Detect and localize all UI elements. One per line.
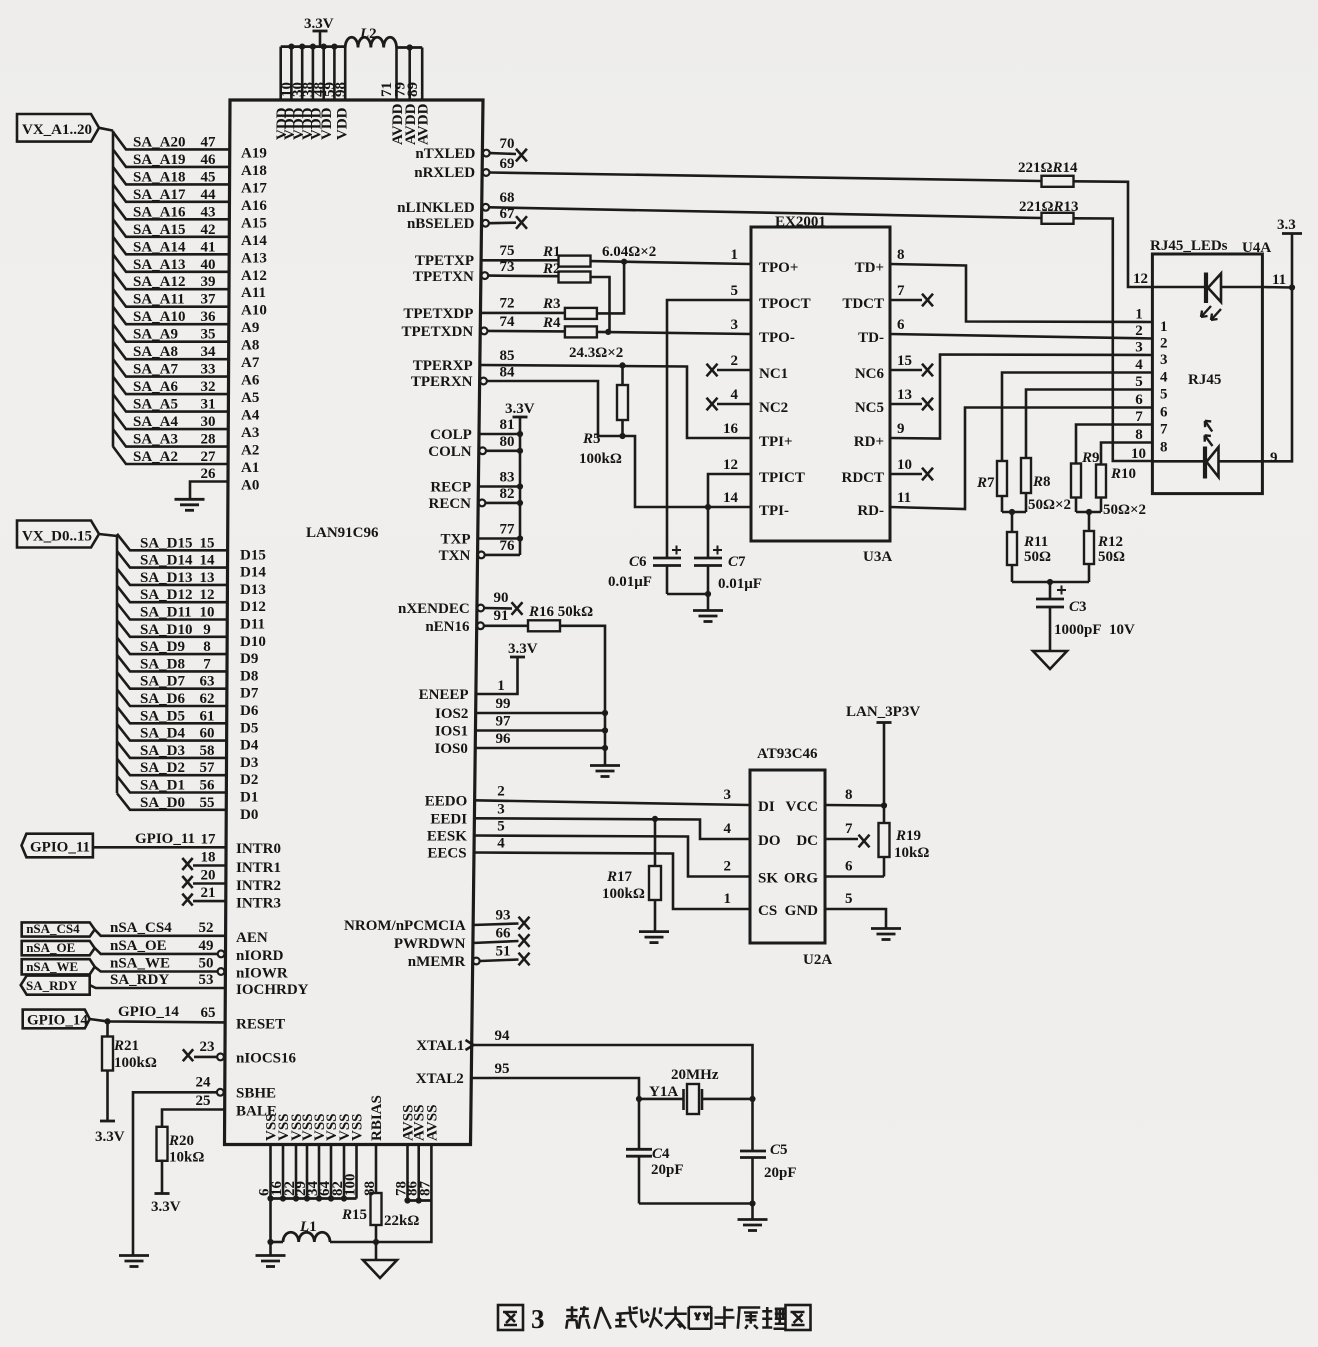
svg-text:6: 6 — [1135, 392, 1143, 408]
svg-text:A17: A17 — [241, 180, 267, 196]
svg-text:D12: D12 — [240, 599, 266, 615]
svg-text:4: 4 — [724, 821, 732, 837]
svg-text:8: 8 — [1135, 427, 1143, 443]
svg-text:R15: R15 — [341, 1207, 367, 1223]
svg-text:46: 46 — [201, 152, 217, 168]
svg-text:77: 77 — [500, 522, 516, 538]
svg-text:NC5: NC5 — [855, 400, 884, 416]
3.3V pullup vertical (COL/REC/TX) — [519, 417, 522, 555]
junction R4/R2 node — [605, 329, 611, 335]
wire TPICT to C7 — [708, 474, 751, 558]
svg-text:COLN: COLN — [428, 444, 472, 460]
svg-text:AEN: AEN — [236, 930, 268, 946]
power symbol 3.3V (R20) — [151, 1194, 181, 1216]
junction XTAL1/C5 — [749, 1096, 755, 1102]
svg-text:82: 82 — [500, 486, 515, 502]
svg-text:1: 1 — [731, 247, 739, 263]
wire AVSS pin 2 — [417, 1145, 420, 1201]
svg-text:RJ45_LEDs: RJ45_LEDs — [1150, 238, 1228, 254]
svg-text:R1: R1 — [542, 244, 561, 260]
svg-text:SA_D1: SA_D1 — [140, 778, 185, 794]
net tag nSA_WE — [22, 959, 95, 975]
svg-text:TPO+: TPO+ — [759, 260, 798, 276]
svg-text:A12: A12 — [241, 268, 267, 284]
no-connect X on nTXLED — [516, 149, 527, 162]
svg-text:nSA_WE: nSA_WE — [26, 959, 78, 974]
wire TPETXN to R2 (pin 73) — [489, 274, 559, 277]
svg-text:13: 13 — [897, 387, 912, 403]
svg-text:11: 11 — [1272, 272, 1286, 288]
svg-text:94: 94 — [495, 1028, 511, 1044]
pin XTAL1 arrow — [466, 1040, 474, 1050]
resistor R19 — [879, 806, 890, 877]
junction 3.3V bus at TXP — [517, 535, 523, 541]
junction IOS1/ground bus — [602, 727, 608, 733]
wire nRXLED to R14 (pin 69) — [490, 173, 1041, 182]
svg-text:TXN: TXN — [439, 548, 471, 564]
svg-text:58: 58 — [200, 743, 215, 759]
wire TXP (pin 77) — [478, 537, 521, 540]
svg-text:6: 6 — [845, 859, 853, 875]
address bus vertical — [112, 131, 115, 447]
wire GPIO_11 to INTR0 (pin 17) — [93, 846, 226, 849]
svg-text:A9: A9 — [241, 320, 259, 336]
svg-text:68: 68 — [500, 190, 515, 206]
svg-text:0.01μF: 0.01μF — [608, 574, 652, 590]
svg-text:nRXLED: nRXLED — [414, 165, 475, 181]
svg-text:45: 45 — [201, 169, 216, 185]
junction 3.3V/pin11 — [1289, 284, 1295, 290]
svg-text:87: 87 — [417, 1181, 433, 1197]
resistor R14 — [1042, 176, 1074, 187]
inversion bubble nXENDEC — [477, 605, 484, 612]
junction on VDD bar — [299, 44, 305, 50]
svg-text:ENEEP: ENEEP — [419, 687, 469, 703]
wire VSS pin 2 — [282, 1145, 285, 1199]
wire SA_D14 (pin 14) — [117, 551, 227, 568]
svg-text:53: 53 — [199, 972, 214, 988]
svg-text:IOS2: IOS2 — [435, 706, 468, 722]
svg-text:2: 2 — [1160, 336, 1168, 352]
svg-text:SA_A10: SA_A10 — [133, 309, 186, 325]
no-connect X on INTR2 — [182, 876, 192, 888]
junction 3.3V bus at COLN — [517, 448, 523, 454]
junction on VSS bar — [316, 1195, 322, 1201]
svg-text:U2A: U2A — [803, 952, 832, 968]
wire SA_A19 (pin 46) — [113, 149, 230, 167]
svg-text:50: 50 — [199, 956, 214, 972]
svg-text:4: 4 — [497, 836, 505, 852]
wire VDD pin 3 — [301, 47, 304, 100]
svg-text:SA_D4: SA_D4 — [140, 726, 186, 742]
svg-text:A5: A5 — [241, 390, 259, 406]
power symbol 3.3V (ENEEP) — [508, 641, 538, 657]
svg-text:SBHE: SBHE — [236, 1086, 276, 1102]
junction on VDD bar — [288, 44, 294, 50]
wire ORG to R19 — [825, 875, 884, 878]
svg-text:RD+: RD+ — [854, 434, 884, 450]
junction TPERXN/R5 — [619, 433, 625, 439]
svg-text:9: 9 — [897, 421, 905, 437]
junction XTAL2/C4 — [636, 1096, 642, 1102]
inversion bubble RECN — [479, 500, 486, 507]
resistor R16 — [528, 620, 560, 631]
svg-text:SA_D14: SA_D14 — [140, 553, 193, 569]
svg-text:D10: D10 — [240, 634, 266, 650]
junction 3.3V bus at COLP — [517, 431, 523, 437]
wire EX2001 NC6 stub — [890, 369, 922, 372]
svg-text:100kΩ: 100kΩ — [579, 451, 622, 467]
svg-text:6: 6 — [1160, 405, 1168, 421]
svg-text:U4A: U4A — [1242, 240, 1271, 256]
svg-text:R4: R4 — [542, 315, 561, 331]
wire SA_D0 (pin 55) — [117, 793, 226, 810]
svg-text:50Ω: 50Ω — [1024, 549, 1051, 565]
wire R9/R10 to R12 — [1076, 511, 1101, 514]
junction on VSS bar — [267, 1195, 273, 1201]
svg-text:R8: R8 — [1032, 474, 1051, 490]
svg-text:C3: C3 — [1069, 599, 1087, 615]
svg-text:TPETXDP: TPETXDP — [403, 306, 473, 322]
svg-text:R2: R2 — [542, 261, 561, 277]
inversion bubble nTXLED — [483, 150, 490, 157]
inversion bubble TPERXN — [480, 378, 487, 385]
svg-text:nTXLED: nTXLED — [415, 146, 475, 162]
svg-text:17: 17 — [201, 832, 217, 848]
svg-text:VX_D0..15: VX_D0..15 — [22, 529, 92, 545]
wire SA_A17 (pin 44) — [113, 184, 229, 202]
power symbol LAN_3P3V — [846, 704, 920, 806]
junction on VDD bar — [321, 44, 327, 50]
svg-text:93: 93 — [496, 908, 511, 924]
svg-text:LAN91C96: LAN91C96 — [306, 525, 379, 541]
svg-text:R16 50kΩ: R16 50kΩ — [528, 604, 593, 620]
svg-text:SA_D15: SA_D15 — [140, 535, 193, 551]
capacitor C3 (polarized) — [1036, 582, 1064, 651]
junction IOS2/ground bus — [602, 710, 608, 716]
svg-text:4: 4 — [1135, 357, 1143, 373]
ground (analog triangle) — [363, 1242, 397, 1278]
junction on VSS bar — [293, 1195, 299, 1201]
resistor R4 — [565, 326, 597, 337]
svg-text:44: 44 — [201, 187, 217, 203]
svg-text:1: 1 — [724, 891, 732, 907]
no-connect X on nXENDEC — [512, 602, 523, 615]
wire AVDD pin 3 — [421, 48, 424, 101]
svg-text:4: 4 — [1160, 370, 1168, 386]
svg-text:36: 36 — [201, 309, 217, 325]
svg-text:5: 5 — [1160, 387, 1168, 403]
svg-text:10kΩ: 10kΩ — [169, 1150, 204, 1166]
svg-text:3: 3 — [531, 1304, 545, 1334]
svg-text:28: 28 — [201, 432, 216, 448]
svg-text:SA_A14: SA_A14 — [133, 239, 186, 255]
svg-text:GPIO_11: GPIO_11 — [30, 840, 90, 856]
svg-text:60: 60 — [200, 726, 215, 742]
svg-text:NC2: NC2 — [759, 400, 788, 416]
svg-text:18: 18 — [201, 850, 216, 866]
wire nXENDEC stub (pin 90) — [485, 607, 512, 610]
svg-text:GPIO_11: GPIO_11 — [135, 831, 195, 847]
svg-text:D8: D8 — [240, 668, 258, 684]
wire INTR1 stub (pin 18) — [193, 864, 226, 867]
power symbol 3.3V (R21) — [95, 1121, 125, 1145]
resistor R5 — [617, 365, 628, 436]
svg-text:SA_D7: SA_D7 — [140, 674, 186, 690]
wire VSS pin 3 — [295, 1145, 298, 1199]
inversion bubble nIOCS16 — [217, 1054, 224, 1061]
svg-text:2: 2 — [1135, 323, 1143, 339]
svg-text:A2: A2 — [241, 443, 259, 459]
svg-text:11: 11 — [897, 490, 911, 506]
svg-text:TPOCT: TPOCT — [759, 296, 811, 312]
wire SA_A16 (pin 43) — [113, 202, 229, 220]
svg-text:L2: L2 — [359, 26, 377, 42]
svg-text:TDCT: TDCT — [842, 296, 884, 312]
svg-text:99: 99 — [496, 696, 511, 712]
wire EX2001 NC5 stub — [890, 403, 922, 406]
svg-text:RECP: RECP — [430, 480, 471, 496]
svg-text:74: 74 — [500, 314, 516, 330]
svg-text:57: 57 — [200, 760, 216, 776]
svg-text:63: 63 — [200, 674, 215, 690]
wire SA_D13 (pin 13) — [117, 568, 227, 585]
svg-text:A6: A6 — [241, 373, 260, 389]
svg-text:100kΩ: 100kΩ — [114, 1055, 157, 1071]
wire SA_A12 (pin 39) — [113, 272, 229, 290]
capacitor C6 plus sign — [672, 546, 681, 555]
svg-text:SA_A8: SA_A8 — [133, 344, 178, 360]
junction on VSS bar — [280, 1195, 286, 1201]
svg-text:10: 10 — [1131, 446, 1146, 462]
svg-text:3.3V: 3.3V — [95, 1129, 125, 1145]
wire SA_A8 (pin 34) — [113, 342, 229, 360]
svg-text:VDD: VDD — [319, 107, 335, 140]
svg-text:3: 3 — [497, 801, 505, 817]
svg-text:U3A: U3A — [863, 549, 892, 565]
svg-text:AT93C46: AT93C46 — [757, 746, 818, 762]
wire SA_A9 (pin 35) — [113, 324, 229, 342]
svg-text:7: 7 — [1135, 409, 1143, 425]
inversion bubble nLINKLED — [482, 204, 489, 211]
capacitor C4 — [626, 1099, 652, 1204]
wire R3 to R1 node — [597, 262, 624, 314]
svg-text:D6: D6 — [240, 703, 259, 719]
svg-text:98: 98 — [333, 82, 349, 97]
svg-text:96: 96 — [496, 731, 512, 747]
svg-text:A1: A1 — [241, 460, 259, 476]
resistor R9 — [1071, 425, 1130, 513]
wire INTR3 stub (pin 21) — [193, 900, 225, 903]
ground (digital, left of L1) — [256, 1242, 286, 1267]
svg-text:SA_A17: SA_A17 — [133, 187, 186, 203]
svg-text:15: 15 — [200, 535, 215, 551]
svg-text:TPICT: TPICT — [759, 470, 805, 486]
junction on VSS bar — [328, 1195, 334, 1201]
svg-text:D7: D7 — [240, 686, 259, 702]
svg-text:TPETXDN: TPETXDN — [402, 324, 474, 340]
wire VSS pin 8 — [355, 1145, 358, 1199]
svg-text:R21: R21 — [113, 1038, 139, 1054]
svg-text:SA_A20: SA_A20 — [133, 134, 186, 150]
svg-text:RESET: RESET — [236, 1017, 285, 1033]
LED transmit emission arrows — [1201, 306, 1221, 320]
svg-text:A7: A7 — [241, 355, 260, 371]
wire nBSELED stub (pin 67) — [490, 221, 517, 224]
net tag GPIO_11 — [22, 834, 93, 858]
svg-text:TPERXP: TPERXP — [413, 358, 473, 374]
wire nSA_WE to nIOWR (pin 50) — [95, 967, 217, 972]
wire TXN (pin 76) — [485, 554, 520, 557]
svg-text:R7: R7 — [976, 475, 995, 491]
svg-text:100: 100 — [343, 1174, 359, 1197]
resistor R7 — [997, 373, 1130, 513]
IC U1 LAN91C96 body — [225, 100, 484, 1145]
wire SA_A18 (pin 45) — [113, 167, 230, 185]
svg-text:73: 73 — [500, 259, 515, 275]
svg-text:A10: A10 — [241, 303, 267, 319]
svg-text:7: 7 — [203, 656, 211, 672]
svg-text:100kΩ: 100kΩ — [602, 886, 645, 902]
wire VDD pin 6 — [333, 47, 336, 100]
svg-text:75: 75 — [500, 243, 515, 259]
wire 3.3V to RJ45 pin 9 — [1262, 288, 1292, 462]
resistor R17 — [649, 819, 661, 931]
svg-text:nSA_CS4: nSA_CS4 — [110, 920, 172, 936]
svg-text:221ΩR14: 221ΩR14 — [1018, 160, 1078, 176]
svg-text:SA_A6: SA_A6 — [133, 379, 179, 395]
data bus vertical — [116, 536, 119, 793]
svg-text:47: 47 — [201, 134, 217, 150]
svg-text:20pF: 20pF — [764, 1165, 797, 1181]
resistor R2 — [559, 272, 591, 283]
no-connect X on NROM/nPCMCIA — [519, 917, 530, 930]
svg-text:GPIO_14: GPIO_14 — [118, 1004, 179, 1020]
wire SA_A7 (pin 33) — [113, 359, 228, 377]
svg-text:EEDO: EEDO — [425, 793, 468, 809]
wire TD+ to RJ45 pin 1 — [890, 264, 1152, 322]
wire GPIO_14 to RESET (pin 65) — [90, 1019, 225, 1022]
svg-text:1: 1 — [497, 678, 505, 694]
svg-text:50Ω: 50Ω — [1098, 549, 1125, 565]
svg-text:3: 3 — [1160, 352, 1168, 368]
svg-text:R12: R12 — [1097, 534, 1123, 550]
wire NROM/nPCMCIA stub (pin 93) — [473, 924, 519, 926]
wire SA_A15 (pin 42) — [113, 219, 229, 237]
wire SA_A6 (pin 32) — [113, 377, 228, 395]
no-connect X on EX2001 NC1 — [707, 364, 718, 377]
wire SA_A2 (pin 27) — [113, 447, 228, 465]
svg-text:nSA_WE: nSA_WE — [110, 956, 170, 972]
svg-text:SK: SK — [758, 871, 778, 887]
svg-text:SA_D6: SA_D6 — [140, 691, 186, 707]
svg-text:10: 10 — [200, 605, 215, 621]
junction R7/R8/R11 — [1009, 509, 1015, 515]
wire TPETXDP to R3 (pin 72) — [480, 312, 565, 315]
svg-text:TPETXN: TPETXN — [413, 269, 474, 285]
junction on VDD bar — [310, 44, 316, 50]
junction R1/R3 node — [621, 259, 627, 265]
svg-text:C4: C4 — [652, 1146, 670, 1162]
svg-text:SA_A19: SA_A19 — [133, 152, 186, 168]
wire AVDD pin 1 — [395, 48, 398, 101]
svg-text:2: 2 — [731, 353, 739, 369]
svg-text:R20: R20 — [168, 1133, 194, 1149]
wire RJ45 pin 5 stub — [1130, 388, 1152, 391]
wire nMEMR stub (pin 51) — [480, 960, 518, 962]
svg-text:NC1: NC1 — [759, 366, 788, 382]
wire SA_D15 (pin 15) — [117, 534, 227, 551]
wire TPETXDN to R4 (pin 74) — [488, 330, 565, 333]
svg-text:TPI-: TPI- — [759, 503, 789, 519]
svg-text:L1: L1 — [299, 1219, 317, 1235]
wire C6 bottom to C7 bottom — [667, 593, 708, 596]
wire R2 to R4 node — [591, 277, 610, 332]
resistor R21 — [102, 1021, 113, 1121]
wire RBIAS to R15 — [375, 1145, 378, 1194]
wire VDD pin 2 — [290, 47, 293, 100]
resistor R13 — [1042, 213, 1074, 224]
no-connect X on AT93C46 DC — [825, 835, 870, 848]
net tag nSA_CS4 — [22, 921, 95, 937]
svg-text:VX_A1..20: VX_A1..20 — [22, 122, 92, 138]
no-connect X on EX2001 NC2 — [707, 398, 718, 411]
svg-text:85: 85 — [500, 348, 515, 364]
wire SA_A14 (pin 41) — [113, 237, 229, 255]
svg-text:81: 81 — [500, 417, 515, 433]
svg-text:VCC: VCC — [786, 799, 819, 815]
resistor R3 — [565, 308, 597, 319]
svg-text:SA_D0: SA_D0 — [140, 795, 185, 811]
net tag VX_D0..15 — [17, 521, 99, 548]
wire from VX_A1..20 tag to address bus — [99, 128, 113, 131]
svg-text:SA_RDY: SA_RDY — [110, 972, 169, 988]
junction on AVSS bar — [404, 1197, 410, 1203]
inversion bubble COLN — [479, 447, 486, 454]
svg-text:35: 35 — [201, 327, 216, 343]
wire TPERXN to EX2001 TPI- (pin 84) — [488, 381, 752, 507]
wire VSS pin 1 — [269, 1145, 272, 1199]
wire COLP (pin 81) — [479, 433, 520, 436]
svg-text:nIOCS16: nIOCS16 — [236, 1051, 297, 1067]
svg-text:13: 13 — [200, 570, 215, 586]
svg-text:16: 16 — [723, 421, 739, 437]
junction TPERXP/R5 — [619, 362, 625, 368]
wire VSS pin 7 — [343, 1145, 346, 1199]
svg-text:91: 91 — [494, 608, 509, 624]
wire R13 to RJ45 pin 10 — [1074, 218, 1152, 461]
wire RD+ to RJ45 pin 3 — [890, 355, 1152, 439]
junction 3.3V bus at RECP — [517, 483, 523, 489]
svg-text:R17: R17 — [606, 869, 633, 885]
svg-text:SA_D3: SA_D3 — [140, 743, 185, 759]
LED transmit (top, inside RJ45) — [1152, 273, 1262, 304]
wire VDD pin 5 — [322, 47, 325, 100]
svg-text:SA_A12: SA_A12 — [133, 274, 186, 290]
svg-text:62: 62 — [200, 691, 215, 707]
svg-text:INTR3: INTR3 — [236, 896, 281, 912]
wire VSS pin 6 — [330, 1145, 333, 1199]
svg-text:14: 14 — [200, 553, 216, 569]
svg-text:A14: A14 — [241, 233, 267, 249]
svg-text:SA_A9: SA_A9 — [133, 327, 178, 343]
inductor L1 — [271, 1232, 377, 1242]
svg-text:A11: A11 — [241, 285, 266, 301]
svg-text:nBSELED: nBSELED — [407, 216, 475, 232]
resistor R10 — [1096, 443, 1130, 513]
wire SA_D1 (pin 56) — [117, 776, 226, 793]
inversion bubble TPETXN — [481, 272, 488, 279]
